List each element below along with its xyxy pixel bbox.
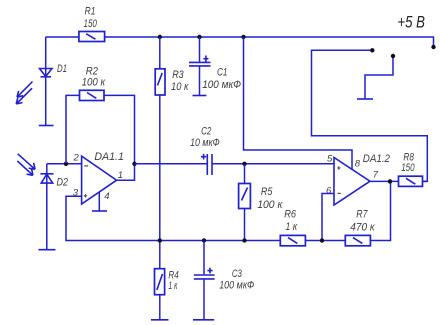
label R3 value xyxy=(171,69,189,93)
svg-text:R5: R5 xyxy=(261,186,273,198)
wire R2 feedback loop xyxy=(66,95,135,163)
label R8 value xyxy=(401,152,415,175)
pin 6 label xyxy=(326,185,332,196)
svg-text:D2: D2 xyxy=(57,176,69,188)
svg-text:DA1.1: DA1.1 xyxy=(94,151,124,163)
D1 light arrow 1 xyxy=(17,82,33,98)
pin 1 label xyxy=(118,170,123,181)
ground bar C1 xyxy=(193,95,207,97)
svg-text:10 к: 10 к xyxy=(171,81,189,93)
node output junction DA1.2 xyxy=(388,179,392,183)
svg-text:8: 8 xyxy=(355,158,361,169)
node junction pin2 xyxy=(64,162,68,166)
diode D2 (photodiode) xyxy=(40,174,53,183)
diode D1 (LED) xyxy=(40,69,53,77)
svg-text:D1: D1 xyxy=(57,63,67,75)
ground bar R4 xyxy=(151,319,169,321)
label R6 value xyxy=(284,208,298,233)
node +5V terminal dot xyxy=(431,45,435,49)
label R5 value xyxy=(257,186,283,211)
svg-text:1 к: 1 к xyxy=(285,221,297,233)
wire signal to C2 xyxy=(135,163,208,165)
pin 5 label xyxy=(327,154,333,165)
op-amp DA1.1 xyxy=(82,156,117,204)
label C3 value xyxy=(219,268,254,292)
svg-text:100 к: 100 к xyxy=(257,199,283,211)
wire pin3 to bottom rail xyxy=(66,181,391,240)
wire power line to pin 8 xyxy=(244,37,353,170)
capacitor C2 xyxy=(201,154,212,175)
label D1 xyxy=(57,63,67,75)
svg-text:R3: R3 xyxy=(172,69,184,81)
node junction R5 xyxy=(242,162,246,166)
svg-text:R7: R7 xyxy=(356,208,368,220)
svg-text:7: 7 xyxy=(373,170,379,181)
wire R3-R4 column xyxy=(159,37,161,320)
label D2 xyxy=(57,176,69,188)
resistor R8 xyxy=(399,176,423,186)
node output junction xyxy=(132,162,136,166)
wire DA1.2 output xyxy=(370,180,427,182)
ground bar DA1.1 pin4 xyxy=(92,210,107,212)
svg-text:470 к: 470 к xyxy=(350,222,375,234)
op-amp DA1.2 xyxy=(334,158,370,206)
resistor R4 xyxy=(155,269,165,295)
node rail junction R3 xyxy=(158,35,162,39)
node rail junction C1 xyxy=(197,35,201,39)
svg-text:10 мкФ: 10 мкФ xyxy=(190,137,220,149)
wire pin6 xyxy=(322,194,335,241)
capacitor C1 xyxy=(189,56,211,66)
svg-text:C2: C2 xyxy=(201,125,211,137)
svg-text:6: 6 xyxy=(326,185,332,196)
capacitor C3 xyxy=(194,268,215,279)
svg-text:DA1.2: DA1.2 xyxy=(363,153,390,165)
wire contact-to-ground xyxy=(365,56,393,99)
svg-text:100 к: 100 к xyxy=(82,77,106,89)
label C1 value xyxy=(202,66,241,91)
svg-text:C3: C3 xyxy=(232,268,243,280)
pin 4 label xyxy=(104,191,109,202)
wire +5V rail xyxy=(46,37,434,47)
svg-text:C1: C1 xyxy=(217,66,228,78)
pin 7 label xyxy=(373,170,379,181)
wire R5 branch xyxy=(244,164,246,241)
svg-text:R6: R6 xyxy=(284,208,297,220)
svg-text:5: 5 xyxy=(327,154,333,165)
label R7 value xyxy=(350,208,375,233)
ground bar D1 xyxy=(39,125,54,127)
label R1 value xyxy=(84,6,98,30)
svg-text:R1: R1 xyxy=(85,6,96,18)
svg-text:1 к: 1 к xyxy=(168,280,177,292)
resistor R3 xyxy=(155,69,165,95)
wire DA1.1 output xyxy=(117,164,135,180)
pin 8 label xyxy=(355,158,361,169)
node junction R5 bottom xyxy=(242,238,246,242)
label R4 value xyxy=(168,269,178,292)
D1 light arrow 2 xyxy=(16,88,32,104)
svg-text:+5 В: +5 В xyxy=(397,13,425,32)
label R2 value xyxy=(82,65,106,88)
svg-text:150: 150 xyxy=(84,18,98,30)
svg-text:150: 150 xyxy=(401,162,415,174)
resistor R2 xyxy=(80,90,105,100)
pin 3 label xyxy=(73,187,79,198)
label DA1.1 xyxy=(94,151,124,163)
svg-text:100 мкФ: 100 мкФ xyxy=(202,79,241,91)
ground bar C3 xyxy=(193,319,214,321)
node junction C3 bottom xyxy=(202,238,206,242)
node junction R4 column bottom xyxy=(158,238,162,242)
D2 light arrow 1 xyxy=(18,154,35,170)
wire pin4 ground stub xyxy=(98,192,100,211)
node junction pin6 bottom xyxy=(320,238,324,242)
node contact dot A xyxy=(370,48,374,52)
wire output contact line xyxy=(312,50,428,181)
label DA1.2 xyxy=(363,153,390,165)
node contact dot B xyxy=(391,54,395,58)
svg-text:2: 2 xyxy=(73,152,80,163)
wire D1 branch xyxy=(45,37,47,126)
svg-text:4: 4 xyxy=(104,191,109,202)
svg-text:100 мкФ: 100 мкФ xyxy=(219,280,254,292)
resistor R6 xyxy=(280,235,305,245)
resistor R1 xyxy=(79,32,105,42)
svg-text:R2: R2 xyxy=(86,65,98,77)
wire C1 branch xyxy=(199,37,201,95)
wire C3 branch xyxy=(203,241,205,320)
ground bar D2 xyxy=(39,249,56,251)
wire D2 to pin2 xyxy=(47,163,82,165)
D2 light arrow 2 xyxy=(17,161,33,175)
label C2 value xyxy=(190,125,220,149)
pin 2 label xyxy=(73,152,80,163)
wire C2 to pin 5 xyxy=(212,163,335,165)
node rail junction power xyxy=(241,35,245,39)
ground bar contacts xyxy=(357,98,373,100)
resistor R7 xyxy=(345,235,370,245)
wire D2 branch xyxy=(46,164,48,250)
node +5 В label xyxy=(397,13,425,32)
resistor R5 xyxy=(239,184,251,209)
